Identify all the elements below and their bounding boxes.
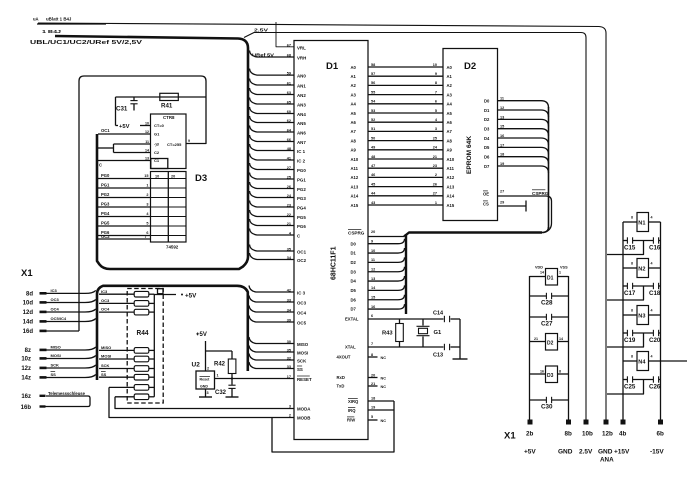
svg-text:OE: OE <box>483 192 489 197</box>
svg-text:AN2: AN2 <box>297 93 306 98</box>
svg-text:20: 20 <box>371 373 375 377</box>
svg-text:TxD: TxD <box>337 384 345 389</box>
svg-text:16d: 16d <box>23 329 34 335</box>
svg-text:N2: N2 <box>638 266 645 272</box>
svg-text:IC3: IC3 <box>51 288 58 293</box>
svg-text:8z: 8z <box>25 348 31 354</box>
svg-text:C26: C26 <box>649 383 661 390</box>
svg-text:IC 1: IC 1 <box>297 149 306 154</box>
svg-text:C1: C1 <box>154 158 160 163</box>
svg-text:8: 8 <box>559 370 561 374</box>
svg-text:CT=0: CT=0 <box>154 123 165 128</box>
svg-text:C2: C2 <box>154 150 160 155</box>
svg-text:14z: 14z <box>21 376 31 382</box>
svg-text:6: 6 <box>371 314 373 318</box>
svg-text:-15V: -15V <box>650 449 664 456</box>
svg-text:8: 8 <box>371 353 373 357</box>
svg-text:MISO: MISO <box>101 345 111 350</box>
svg-text:IC 3: IC 3 <box>297 290 306 295</box>
svg-text:43: 43 <box>371 201 375 205</box>
svg-text:19: 19 <box>371 406 375 410</box>
svg-text:A10: A10 <box>351 157 359 162</box>
svg-text:A5: A5 <box>351 111 357 116</box>
svg-text:57: 57 <box>371 72 375 76</box>
svg-text:A8: A8 <box>351 138 357 143</box>
svg-text:A3: A3 <box>351 92 357 97</box>
svg-text:OC2: OC2 <box>101 234 110 239</box>
svg-text:IC 2: IC 2 <box>297 158 306 163</box>
svg-text:+5V: +5V <box>196 332 207 338</box>
svg-text:46: 46 <box>371 173 375 177</box>
svg-text:A12: A12 <box>447 175 455 180</box>
svg-text:AN5: AN5 <box>297 121 306 126</box>
svg-text:10z: 10z <box>21 357 31 363</box>
svg-text:A7: A7 <box>447 129 453 134</box>
svg-text:2.5V: 2.5V <box>254 28 269 33</box>
svg-text:XIRQ: XIRQ <box>348 399 359 404</box>
svg-text:C27: C27 <box>541 321 553 328</box>
svg-text:9: 9 <box>371 240 373 244</box>
svg-text:MOSI: MOSI <box>101 354 111 359</box>
svg-text:PG5: PG5 <box>101 221 110 226</box>
svg-text:D1: D1 <box>484 108 490 113</box>
svg-text:PG4: PG4 <box>297 205 306 210</box>
svg-text:15: 15 <box>144 174 148 178</box>
svg-text:27: 27 <box>500 190 504 194</box>
svg-text:4b: 4b <box>619 431 627 438</box>
svg-text:X1: X1 <box>504 431 516 442</box>
svg-text:52: 52 <box>371 118 375 122</box>
svg-text:21: 21 <box>433 155 437 159</box>
svg-text:D0: D0 <box>351 241 357 246</box>
svg-text:OC5/IC4: OC5/IC4 <box>51 316 67 321</box>
svg-text:4: 4 <box>651 355 653 359</box>
svg-text:CT=255: CT=255 <box>167 142 182 147</box>
svg-text:6b: 6b <box>657 431 665 438</box>
svg-text:4: 4 <box>651 309 653 313</box>
svg-text:D2: D2 <box>547 341 554 347</box>
svg-text:A0: A0 <box>351 65 357 70</box>
svg-text:PG0: PG0 <box>297 168 306 173</box>
svg-text:10: 10 <box>155 175 159 179</box>
svg-text:A5: A5 <box>447 111 453 116</box>
svg-text:11: 11 <box>371 258 375 262</box>
svg-text:SCK: SCK <box>101 363 110 368</box>
svg-text:AN6: AN6 <box>297 130 306 135</box>
svg-text:2: 2 <box>289 413 291 417</box>
svg-text:3: 3 <box>435 127 437 131</box>
svg-text:OC3: OC3 <box>297 300 307 305</box>
svg-text:PG3: PG3 <box>101 202 110 207</box>
svg-text:D5: D5 <box>351 288 357 293</box>
svg-text:GND: GND <box>558 449 573 456</box>
svg-text:XTAL: XTAL <box>345 345 356 350</box>
svg-text:PG2: PG2 <box>297 187 306 192</box>
svg-text:SS: SS <box>297 367 303 372</box>
svg-text:G1: G1 <box>154 132 160 137</box>
svg-text:MISO: MISO <box>51 344 61 349</box>
svg-text:VRL: VRL <box>297 45 306 50</box>
svg-text:R/W: R/W <box>347 418 355 423</box>
svg-text:1: 1 <box>559 271 561 275</box>
svg-text:R43: R43 <box>382 331 393 337</box>
svg-text:+5V: +5V <box>119 124 130 130</box>
svg-text:EPROM 64K: EPROM 64K <box>466 136 473 174</box>
svg-text:AN0: AN0 <box>297 73 306 78</box>
svg-text:6: 6 <box>435 100 437 104</box>
svg-text:EXTAL: EXTAL <box>345 317 359 322</box>
svg-text:12z: 12z <box>21 366 31 372</box>
svg-text:AN1: AN1 <box>297 83 306 88</box>
svg-text:23: 23 <box>433 164 437 168</box>
svg-text:4: 4 <box>651 216 653 220</box>
svg-text:8: 8 <box>631 309 633 313</box>
svg-text:2: 2 <box>207 367 209 371</box>
svg-text:A15: A15 <box>351 203 359 208</box>
svg-text:OC5: OC5 <box>297 320 307 325</box>
svg-text:A14: A14 <box>351 194 359 199</box>
svg-text:+5V: +5V <box>185 292 197 299</box>
svg-text:5: 5 <box>435 109 437 113</box>
svg-text:21: 21 <box>534 337 538 341</box>
svg-text:URef 5V: URef 5V <box>252 53 275 58</box>
svg-text:Telemessschleuse: Telemessschleuse <box>48 391 86 396</box>
svg-text:A6: A6 <box>351 120 357 125</box>
svg-text:AN3: AN3 <box>297 102 306 107</box>
svg-text:IC3: IC3 <box>101 289 108 294</box>
svg-text:CS: CS <box>483 202 489 207</box>
svg-text:D2: D2 <box>464 61 476 72</box>
svg-text:58: 58 <box>371 63 375 67</box>
svg-text:PG5: PG5 <box>297 215 306 220</box>
svg-text:10d: 10d <box>23 301 34 307</box>
svg-text:R41: R41 <box>161 103 173 110</box>
svg-text:CSPRG: CSPRG <box>348 231 365 236</box>
svg-text:MOSI: MOSI <box>297 350 308 355</box>
svg-text:OC1: OC1 <box>297 249 307 254</box>
svg-text:D1: D1 <box>547 276 554 282</box>
svg-text:PG1: PG1 <box>297 177 306 182</box>
svg-text:7: 7 <box>435 90 437 94</box>
svg-text:SS: SS <box>101 372 107 377</box>
svg-text:MISO: MISO <box>297 342 309 347</box>
svg-text:10: 10 <box>371 249 375 253</box>
svg-text:9: 9 <box>188 139 190 143</box>
svg-text:1: 1 <box>435 201 437 205</box>
svg-text:D4: D4 <box>351 279 357 284</box>
svg-text:2b: 2b <box>526 431 534 438</box>
svg-text:C30: C30 <box>541 404 553 411</box>
svg-text:7: 7 <box>371 342 373 346</box>
svg-text:Reset: Reset <box>200 378 211 382</box>
svg-text:NC: NC <box>381 385 387 389</box>
svg-text:9: 9 <box>435 72 437 76</box>
svg-text:PG6: PG6 <box>297 224 306 229</box>
svg-text:A15: A15 <box>447 203 455 208</box>
svg-text:16b: 16b <box>21 405 32 411</box>
svg-text:4: 4 <box>651 262 653 266</box>
svg-text:D7: D7 <box>484 164 490 169</box>
svg-text:D3: D3 <box>484 126 490 131</box>
svg-text:C18: C18 <box>649 290 661 297</box>
svg-text:D1: D1 <box>326 61 339 72</box>
svg-text:10: 10 <box>433 63 437 67</box>
svg-text:RxD: RxD <box>337 375 345 380</box>
svg-text:MOSI: MOSI <box>51 353 61 358</box>
svg-text:C: C <box>99 163 102 168</box>
svg-text:A13: A13 <box>447 184 455 189</box>
svg-text:G1: G1 <box>434 330 443 336</box>
svg-text:D5: D5 <box>484 145 490 150</box>
svg-text:D4: D4 <box>484 136 490 141</box>
svg-text:IRQ: IRQ <box>348 408 356 413</box>
svg-text:A6: A6 <box>447 120 453 125</box>
svg-text:OC1: OC1 <box>101 128 110 133</box>
svg-text:16: 16 <box>540 370 544 374</box>
svg-text:D0: D0 <box>484 99 490 104</box>
svg-text:14: 14 <box>559 337 563 341</box>
svg-text:A7: A7 <box>351 129 357 134</box>
svg-text:1: 1 <box>217 374 219 378</box>
svg-text:C32: C32 <box>215 390 227 396</box>
svg-text:2.5V: 2.5V <box>579 449 593 456</box>
svg-text:C19: C19 <box>624 337 636 344</box>
svg-text:CTR8: CTR8 <box>163 115 175 120</box>
svg-text:5: 5 <box>146 222 148 226</box>
svg-text:A3: A3 <box>447 92 453 97</box>
svg-text:15: 15 <box>371 296 375 300</box>
svg-text:+15V: +15V <box>614 449 630 456</box>
svg-text:10: 10 <box>145 122 149 126</box>
svg-text:6: 6 <box>146 231 148 235</box>
svg-text:20: 20 <box>371 230 375 234</box>
svg-text:D7: D7 <box>351 307 357 312</box>
svg-text:D3: D3 <box>547 373 554 379</box>
svg-text:OC4: OC4 <box>101 307 110 312</box>
svg-text:16: 16 <box>371 305 375 309</box>
svg-text:UBL/UC1/UC2/URef 5V/2,5V: UBL/UC1/UC2/URef 5V/2,5V <box>30 40 142 46</box>
svg-text:C14: C14 <box>433 311 444 317</box>
svg-text:3: 3 <box>146 203 148 207</box>
svg-text:A4: A4 <box>447 102 453 107</box>
svg-text:MODB: MODB <box>297 415 310 420</box>
svg-text:OC3: OC3 <box>51 297 60 302</box>
svg-text:C20: C20 <box>649 337 661 344</box>
svg-text:C31: C31 <box>116 106 128 113</box>
svg-text:-)3: -)3 <box>154 142 160 147</box>
svg-text:51: 51 <box>371 127 375 131</box>
svg-text:D3: D3 <box>195 173 207 184</box>
svg-text:C16: C16 <box>649 244 661 251</box>
svg-text:C13: C13 <box>433 353 443 359</box>
svg-text:A12: A12 <box>351 175 359 180</box>
svg-text:N1: N1 <box>638 220 645 226</box>
svg-text:18: 18 <box>371 397 375 401</box>
svg-text:R42: R42 <box>214 362 226 368</box>
svg-text:8d: 8d <box>26 292 33 298</box>
svg-text:VSS: VSS <box>560 266 568 270</box>
svg-text:14: 14 <box>540 271 544 275</box>
svg-text:D6: D6 <box>484 154 490 159</box>
svg-text:PG2: PG2 <box>101 192 110 197</box>
svg-text:VDD: VDD <box>535 266 543 270</box>
svg-text:3: 3 <box>207 391 209 395</box>
svg-text:A11: A11 <box>447 166 455 171</box>
svg-text:8: 8 <box>435 81 437 85</box>
svg-text:A1: A1 <box>351 74 357 79</box>
svg-text:47: 47 <box>371 164 375 168</box>
svg-text:GND: GND <box>598 449 613 456</box>
svg-text:7: 7 <box>144 235 146 239</box>
svg-text:C25: C25 <box>624 383 636 390</box>
svg-text:10b: 10b <box>582 431 593 438</box>
svg-text:12d: 12d <box>23 310 34 316</box>
svg-text:C28: C28 <box>541 300 553 307</box>
svg-text:SCK: SCK <box>51 362 60 367</box>
svg-text:8: 8 <box>631 216 633 220</box>
svg-text:OC2: OC2 <box>297 258 307 263</box>
svg-text:RESET: RESET <box>297 377 312 382</box>
svg-text:21: 21 <box>371 382 375 386</box>
svg-text:45: 45 <box>371 182 375 186</box>
svg-text:1: 1 <box>146 184 148 188</box>
svg-text:PG1: PG1 <box>101 183 110 188</box>
svg-text:A9: A9 <box>351 148 357 153</box>
svg-text:56: 56 <box>371 81 375 85</box>
svg-text:8b: 8b <box>565 431 573 438</box>
svg-text:12: 12 <box>371 268 375 272</box>
svg-text:A10: A10 <box>447 157 455 162</box>
svg-text:D6: D6 <box>351 297 357 302</box>
svg-text:4XOUT: 4XOUT <box>337 355 351 360</box>
svg-text:U2: U2 <box>192 362 201 369</box>
svg-text:50: 50 <box>371 136 375 140</box>
svg-text:A1: A1 <box>447 74 453 79</box>
svg-text:16z: 16z <box>21 394 31 400</box>
svg-text:OC4: OC4 <box>51 306 60 311</box>
svg-text:CSPRG: CSPRG <box>532 191 549 196</box>
svg-text:A14: A14 <box>447 194 455 199</box>
svg-text:C17: C17 <box>624 290 636 297</box>
svg-text:A2: A2 <box>351 83 357 88</box>
svg-text:N4: N4 <box>638 359 646 365</box>
svg-text:NC: NC <box>381 356 387 360</box>
svg-text:2: 2 <box>146 193 148 197</box>
svg-text:8: 8 <box>631 355 633 359</box>
svg-text:X1: X1 <box>21 268 33 279</box>
svg-text:AN7: AN7 <box>297 140 306 145</box>
svg-text:5: 5 <box>371 415 373 419</box>
svg-text:D2: D2 <box>484 117 490 122</box>
svg-text:74592: 74592 <box>166 245 179 250</box>
svg-text:3: 3 <box>289 404 291 408</box>
svg-text:A8: A8 <box>447 138 453 143</box>
svg-text:14d: 14d <box>23 320 34 326</box>
svg-text:C15: C15 <box>624 244 636 251</box>
svg-text:PG4: PG4 <box>101 211 110 216</box>
svg-text:1 B4J: 1 B4J <box>42 29 62 34</box>
svg-text:A4: A4 <box>351 102 357 107</box>
svg-text:20: 20 <box>171 175 175 179</box>
svg-text:A11: A11 <box>351 166 359 171</box>
svg-text:8: 8 <box>631 262 633 266</box>
svg-text:PG0: PG0 <box>101 173 110 178</box>
svg-text:OC3: OC3 <box>101 298 110 303</box>
svg-text:27: 27 <box>433 192 437 196</box>
svg-text:26: 26 <box>433 182 437 186</box>
svg-text:R44: R44 <box>137 330 149 337</box>
svg-text:N3: N3 <box>638 313 645 319</box>
svg-text:uBlatt 1 B4J: uBlatt 1 B4J <box>46 17 72 22</box>
svg-text:13: 13 <box>371 277 375 281</box>
svg-text:SS: SS <box>51 372 57 377</box>
svg-text:2: 2 <box>435 173 437 177</box>
svg-text:GND: GND <box>200 385 208 389</box>
svg-text:68HC11F1: 68HC11F1 <box>331 246 338 280</box>
svg-text:PG3: PG3 <box>297 196 306 201</box>
svg-text:48: 48 <box>371 155 375 159</box>
svg-text:OC4: OC4 <box>297 310 307 315</box>
svg-text:25: 25 <box>433 136 437 140</box>
svg-text:12b: 12b <box>602 431 613 438</box>
svg-text:NC: NC <box>381 419 387 423</box>
svg-text:D3: D3 <box>351 269 357 274</box>
svg-text:+5V: +5V <box>524 449 536 456</box>
svg-text:49: 49 <box>371 146 375 150</box>
svg-text:A2: A2 <box>447 83 453 88</box>
svg-text:A0: A0 <box>447 65 453 70</box>
svg-text:AN4: AN4 <box>297 112 306 117</box>
svg-text:D1: D1 <box>351 251 357 256</box>
svg-text:VRH: VRH <box>297 55 306 60</box>
svg-text:D2: D2 <box>351 260 357 265</box>
svg-text:29: 29 <box>500 201 504 205</box>
svg-text:uA: uA <box>33 17 39 22</box>
svg-text:A9: A9 <box>447 148 453 153</box>
svg-text:SCK: SCK <box>297 358 307 363</box>
svg-text:MODA: MODA <box>297 406 311 411</box>
svg-text:55: 55 <box>371 90 375 94</box>
svg-text:53: 53 <box>371 109 375 113</box>
svg-text:ANA: ANA <box>600 457 614 464</box>
svg-text:NC: NC <box>381 376 387 380</box>
svg-text:A13: A13 <box>351 184 359 189</box>
